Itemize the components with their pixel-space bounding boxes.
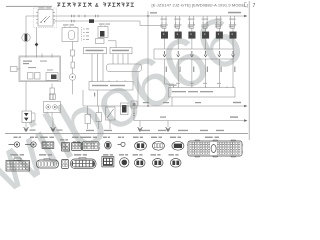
sub circuit RB (107, 64, 142, 72)
junction block J/B (19, 56, 61, 82)
ignition coil C6 (229, 16, 237, 49)
label box L (84, 48, 107, 54)
header rule (6, 5, 52, 7)
spark plug (163, 51, 166, 57)
wire (51, 84, 53, 89)
noise filter (44, 102, 61, 113)
relay in block (46, 73, 58, 81)
label box R (110, 48, 132, 54)
ground label (57, 130, 63, 131)
relay contact K1 (106, 107, 116, 120)
arrow (244, 15, 247, 18)
spark plug (190, 51, 193, 57)
wires below R (113, 54, 128, 64)
wire (26, 16, 38, 33)
page bracket (245, 2, 247, 7)
separator line (5, 133, 248, 135)
sensor box (131, 101, 137, 108)
fuse F3 (50, 88, 54, 94)
connector J oval2 (133, 137, 139, 138)
resistor R4 (85, 115, 91, 124)
connector K oval4 (151, 137, 157, 138)
wire (171, 97, 173, 106)
wire IGT (177, 59, 179, 88)
ground point labels (86, 130, 94, 131)
ignition coil C4 (201, 16, 209, 49)
svg-text:7: 7 (253, 3, 256, 9)
ignition coil C1 (160, 16, 168, 49)
wire (25, 82, 27, 112)
connector V oval (169, 154, 175, 155)
wire IGT (191, 59, 193, 88)
connector Q long oval (74, 154, 81, 155)
ignition coil C2 (174, 16, 182, 49)
striped connector (49, 94, 55, 100)
spark plug (218, 51, 221, 57)
wire IGT (165, 59, 174, 88)
ground (167, 121, 169, 127)
ignition switch enclosure (34, 8, 57, 28)
spark plug box (154, 49, 234, 59)
ECU box (169, 88, 236, 98)
wire (25, 123, 27, 128)
fuse F1 (89, 19, 94, 23)
ground (24, 127, 29, 131)
wire label (228, 12, 241, 14)
ignition switch SW1 (38, 10, 53, 27)
ground (139, 121, 141, 127)
diode pack (22, 111, 32, 123)
right border (248, 1, 250, 140)
arrow (244, 105, 247, 108)
wire (52, 113, 53, 128)
connector B1 round (14, 137, 18, 138)
switch label (39, 7, 45, 8)
connector E (72, 137, 79, 138)
ignition relay R2 (98, 27, 108, 38)
side connector (11, 67, 18, 72)
connector F wide (84, 137, 91, 138)
resistor R5 (96, 113, 102, 122)
fuse f2 (35, 73, 41, 80)
connector C grid (40, 137, 48, 138)
connector ticks (72, 15, 99, 22)
connector B2 round (30, 137, 34, 138)
connector S round (119, 154, 124, 155)
wire stubs (42, 54, 52, 58)
wire (82, 90, 84, 106)
connector T oval (133, 154, 139, 155)
ignition coil C3 (188, 16, 196, 49)
connector block (96, 39, 105, 44)
connector U oval (151, 154, 157, 155)
component dark (121, 103, 129, 115)
wire to right 2 (134, 120, 245, 122)
ground (51, 127, 56, 131)
ignition coil C5 (215, 16, 223, 49)
label (150, 12, 157, 13)
ground label (30, 130, 36, 131)
connector O long (39, 154, 46, 155)
ammeter A1 (22, 33, 30, 41)
wire AM2 bus (53, 15, 245, 17)
wire (137, 72, 139, 107)
title text (57, 3, 134, 7)
wire to right (83, 105, 245, 107)
wire (147, 11, 149, 106)
wire (25, 42, 27, 58)
igniter box LB (89, 82, 133, 91)
switch pins (36, 13, 55, 24)
fuse f1 (28, 73, 34, 80)
arrow (244, 119, 247, 122)
connector G oval (103, 137, 107, 138)
spark plug (204, 51, 207, 57)
spark plug (177, 51, 180, 57)
fuse F2 (71, 50, 75, 56)
capacitor C1 (69, 74, 75, 80)
wire labels (143, 102, 149, 103)
wire IGT (205, 59, 207, 88)
wires below L (92, 54, 103, 82)
svg-text:[E-JZS147 2JZ-GTE] [EWD088U-A: [E-JZS147 2JZ-GTE] [EWD088U-A 1991.9 MOD… (152, 2, 248, 7)
wire (97, 90, 99, 106)
connector column (81, 27, 83, 41)
connector L oval (170, 137, 176, 138)
connector D1 (35, 43, 39, 47)
wire IGT (232, 59, 234, 88)
connector R dark grid (103, 154, 109, 155)
block labels (23, 61, 32, 62)
connector N big grid (11, 154, 18, 155)
svg-text:&: & (95, 3, 99, 9)
connector P small (62, 160, 69, 169)
resistor R3 (71, 62, 75, 68)
wire (72, 42, 74, 95)
starter relay R1 (62, 28, 78, 42)
connector D square (60, 139, 64, 140)
spark plug (232, 51, 235, 57)
connector H key (118, 137, 121, 138)
wire (36, 28, 38, 58)
connector M ECU large (205, 137, 213, 138)
wire IGT (218, 59, 220, 88)
wire IG2 (53, 21, 162, 26)
